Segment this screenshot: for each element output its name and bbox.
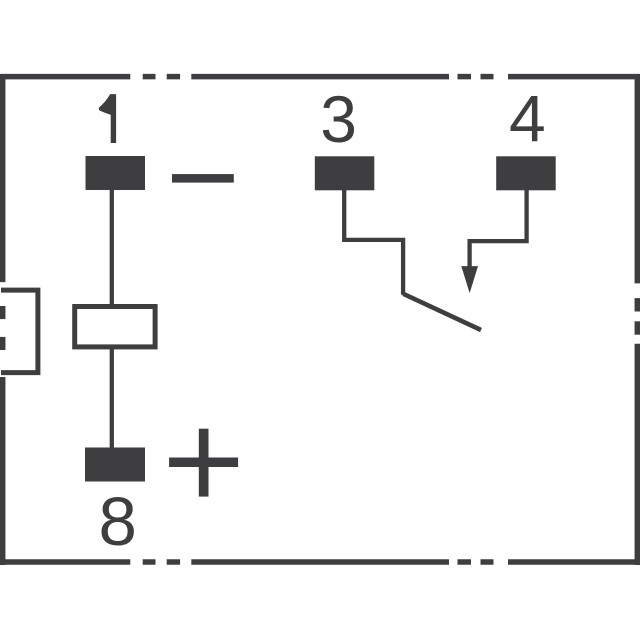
case outline top edge dash 1 [143, 74, 156, 80]
svg-text:8: 8 [99, 483, 137, 560]
case outline top edge dash 2 [167, 74, 180, 80]
actuation arrow head [461, 266, 478, 293]
case side tab (orientation notch) [1, 290, 38, 373]
wire coil to pin 8 [110, 347, 114, 450]
case outline top edge segment middle [191, 74, 449, 80]
case outline top edge dash 4 [481, 74, 494, 80]
case outline bottom edge segment left [0, 559, 130, 565]
case outline bottom edge dash 4 [481, 559, 494, 565]
wire pin 4 to actuation arrow [470, 188, 527, 267]
pin 8 pad [85, 448, 145, 482]
wire pin 1 to coil [110, 188, 114, 306]
coil polarity plus sign horizontal bar [169, 458, 238, 468]
case outline right edge dash 2 [635, 321, 640, 334]
case outline right edge upper segment [635, 74, 640, 283]
pin 1 label [99, 94, 116, 143]
pin 4 pad [496, 156, 556, 190]
wire pin 3 to switch pivot [344, 188, 403, 295]
case outline top edge segment left [0, 74, 130, 80]
coil K1 [75, 307, 155, 347]
case outline bottom edge dash 1 [143, 559, 156, 565]
case outline top edge dash 3 [458, 74, 472, 80]
case outline bottom edge dash 3 [458, 559, 472, 565]
pin 1 pad [86, 156, 146, 190]
switch blade (moving contact) [403, 294, 481, 330]
case outline bottom edge segment middle [191, 559, 449, 565]
pin 3 pad [315, 156, 375, 190]
case outline left edge dash 2 [0, 337, 5, 350]
case outline left edge upper segment [0, 74, 5, 282]
case outline left edge lower segment [0, 377, 5, 565]
svg-text:3: 3 [320, 82, 357, 156]
case outline bottom edge segment right [508, 559, 640, 565]
case outline right edge lower segment [635, 344, 640, 565]
case outline bottom edge dash 2 [167, 559, 180, 565]
case outline left edge dash 1 [0, 306, 5, 319]
case outline right edge dash 1 [635, 298, 640, 311]
case outline top edge segment right [508, 74, 640, 80]
coil polarity plus sign vertical bar [199, 429, 209, 497]
coil polarity minus sign [172, 174, 234, 183]
svg-text:4: 4 [509, 82, 546, 156]
